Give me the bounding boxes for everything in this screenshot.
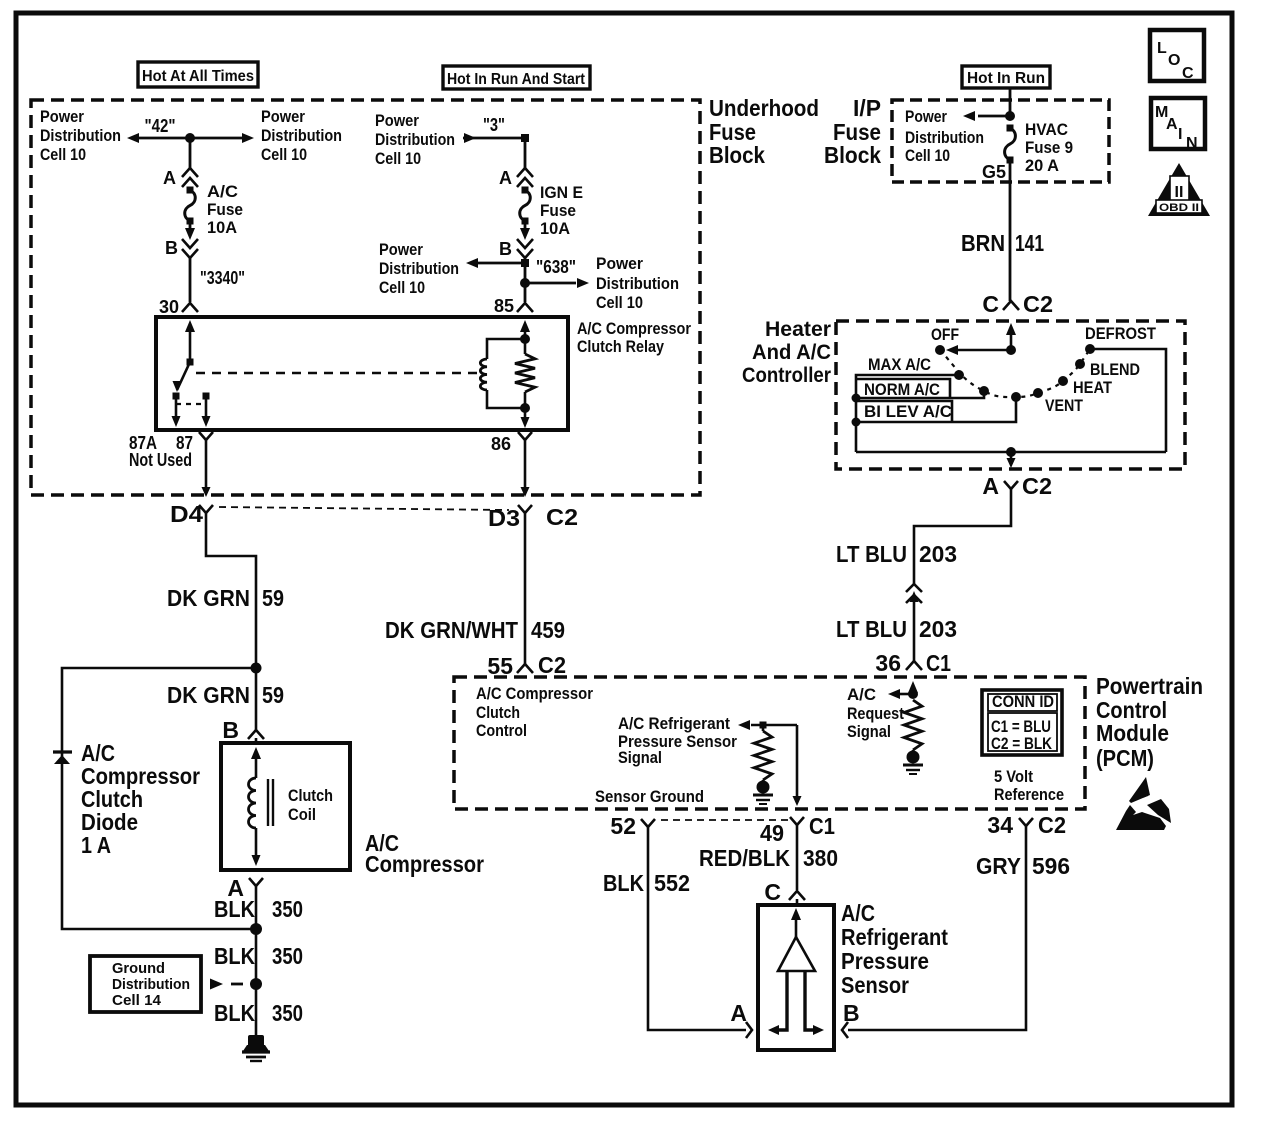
- svg-text:350: 350: [272, 896, 303, 922]
- connector pin B: [182, 239, 198, 248]
- junction diode branch: [251, 663, 262, 674]
- svg-text:LT BLU: LT BLU: [836, 616, 907, 642]
- svg-text:85: 85: [494, 296, 514, 316]
- svg-text:55: 55: [487, 653, 513, 679]
- svg-text:MAX A/C: MAX A/C: [868, 355, 931, 374]
- svg-text:C: C: [764, 879, 781, 905]
- svg-text:Compressor: Compressor: [365, 851, 484, 877]
- svg-text:C2: C2: [1022, 473, 1052, 499]
- svg-text:Cell 10: Cell 10: [261, 145, 307, 164]
- svg-text:34: 34: [987, 812, 1013, 838]
- connector pin B: [517, 239, 533, 248]
- BI LEV A/C label box and wire: [856, 401, 952, 422]
- svg-text:A: A: [982, 473, 999, 499]
- wire 87 to D4: [205, 452, 208, 489]
- wire Hot In Run to fuse block: [1009, 88, 1012, 116]
- svg-text:A: A: [1166, 116, 1178, 133]
- wire 86 to D3: [524, 452, 527, 489]
- svg-text:A/C: A/C: [841, 900, 875, 926]
- svg-text:20 A: 20 A: [1025, 156, 1059, 175]
- wire GRY 596: [848, 840, 1026, 1030]
- svg-text:N: N: [1186, 135, 1198, 152]
- relay switch common from pin 30: [185, 320, 195, 332]
- svg-text:"42": "42": [145, 116, 176, 136]
- svg-text:A: A: [499, 168, 512, 188]
- svg-text:Ground: Ground: [112, 960, 165, 977]
- selector position HEAT: [1058, 376, 1068, 386]
- svg-text:BLK: BLK: [603, 870, 644, 896]
- DEFROST wire right rail: [1090, 349, 1166, 452]
- off-page arrow left (Power Distribution Cell 10): [127, 133, 139, 143]
- LOC icon: [1150, 30, 1204, 81]
- svg-text:350: 350: [272, 943, 303, 969]
- NORM A/C label box and wire: [856, 379, 950, 398]
- clutch coil L1: [251, 747, 261, 759]
- svg-text:A/C Compressor: A/C Compressor: [577, 319, 691, 338]
- entry arrow: [1006, 323, 1016, 335]
- relay actuation dashed link: [196, 372, 479, 374]
- svg-text:C2: C2: [1023, 291, 1053, 317]
- svg-text:A: A: [730, 1000, 747, 1026]
- svg-text:C2 = BLK: C2 = BLK: [991, 734, 1053, 753]
- svg-text:B: B: [165, 238, 178, 258]
- svg-text:Heater: Heater: [765, 318, 831, 341]
- svg-text:49: 49: [760, 820, 784, 846]
- junction ground distribution: [250, 978, 262, 990]
- svg-text:And A/C: And A/C: [752, 341, 831, 364]
- svg-text:DK GRN/WHT: DK GRN/WHT: [385, 617, 518, 643]
- svg-text:Pressure: Pressure: [841, 948, 929, 974]
- request resistor R2: [904, 700, 922, 750]
- svg-text:BLK: BLK: [214, 1000, 255, 1026]
- svg-text:I: I: [1178, 126, 1182, 143]
- svg-text:Power: Power: [261, 107, 305, 126]
- svg-text:B: B: [499, 239, 512, 259]
- svg-text:A: A: [163, 168, 176, 188]
- connector line dashed 52-49: [661, 819, 789, 821]
- svg-text:203: 203: [919, 616, 957, 642]
- svg-text:141: 141: [1015, 230, 1044, 256]
- svg-text:BLEND: BLEND: [1090, 360, 1140, 379]
- A/C compressor box: [221, 743, 350, 870]
- svg-text:C2: C2: [1038, 812, 1066, 838]
- wire 87A down: [175, 399, 178, 418]
- fuse F1 A/C Fuse 10A element: [187, 187, 194, 194]
- wire G5 out of fuse block: [1009, 160, 1012, 182]
- selector arc dashed: [940, 349, 1090, 397]
- svg-text:Clutch Relay: Clutch Relay: [577, 337, 664, 356]
- svg-text:Signal: Signal: [847, 722, 891, 741]
- svg-text:Hot At All Times: Hot At All Times: [142, 68, 254, 85]
- junction 42: [185, 133, 195, 143]
- svg-text:Power: Power: [596, 254, 643, 273]
- svg-text:Sensor: Sensor: [841, 972, 909, 998]
- feed arrow from Power Distribution: [464, 133, 476, 143]
- svg-text:Cell 10: Cell 10: [596, 293, 643, 312]
- PCM boundary: [454, 677, 1085, 809]
- svg-text:Distribution: Distribution: [596, 274, 679, 293]
- contact link dashed: [176, 403, 206, 405]
- selector position BI LEV A/C: [1011, 392, 1021, 402]
- svg-text:Coil: Coil: [288, 805, 316, 824]
- connector line C2 dashed: [219, 507, 509, 510]
- svg-text:A/C: A/C: [207, 182, 238, 201]
- svg-text:52: 52: [610, 813, 636, 839]
- svg-text:Distribution: Distribution: [375, 130, 455, 149]
- relay switch blade: [187, 359, 194, 366]
- svg-text:Cell 10: Cell 10: [379, 278, 425, 297]
- connector pin A (A/C fuse): [182, 168, 198, 177]
- wire "3340": [189, 258, 192, 302]
- svg-text:203: 203: [919, 541, 957, 567]
- wire 87 down: [205, 399, 208, 418]
- label box "Hot In Run": [962, 66, 1050, 88]
- svg-text:86: 86: [491, 434, 511, 454]
- svg-text:Powertrain: Powertrain: [1096, 673, 1203, 699]
- svg-text:(PCM): (PCM): [1096, 745, 1154, 771]
- node 638 branch right: [520, 278, 530, 288]
- svg-text:OFF: OFF: [931, 325, 959, 344]
- relay coil branch top: [520, 320, 530, 332]
- svg-text:RED/BLK: RED/BLK: [699, 845, 790, 871]
- wire DK GRN/WHT 459: [524, 528, 527, 664]
- svg-text:DK GRN: DK GRN: [167, 682, 250, 708]
- svg-text:O: O: [1168, 52, 1180, 69]
- svg-text:380: 380: [803, 845, 838, 871]
- svg-text:Underhood: Underhood: [709, 95, 819, 121]
- svg-text:Block: Block: [709, 142, 765, 168]
- svg-text:Module: Module: [1096, 720, 1169, 746]
- fuse output arrow down: [524, 221, 527, 233]
- svg-text:Power: Power: [379, 240, 423, 259]
- svg-text:Fuse 9: Fuse 9: [1025, 138, 1073, 157]
- selector position MAX A/C: [954, 370, 964, 380]
- svg-text:B: B: [222, 717, 239, 743]
- relay coil to pin 86: [524, 408, 527, 419]
- svg-text:Not Used: Not Used: [129, 450, 192, 470]
- svg-text:D4: D4: [170, 501, 203, 527]
- selector position DEFROST: [1085, 344, 1095, 354]
- svg-text:59: 59: [262, 682, 284, 708]
- svg-text:Refrigerant: Refrigerant: [841, 924, 948, 950]
- svg-text:Distribution: Distribution: [40, 126, 121, 145]
- label box "Hot At All Times": [138, 62, 258, 87]
- svg-text:A/C Compressor: A/C Compressor: [476, 684, 593, 703]
- svg-text:BI LEV A/C: BI LEV A/C: [864, 402, 952, 421]
- controller bottom wire: [856, 451, 1166, 454]
- svg-text:HEAT: HEAT: [1073, 378, 1113, 397]
- svg-text:Signal: Signal: [618, 748, 662, 767]
- svg-text:459: 459: [531, 617, 565, 643]
- relay coil (inductor): [487, 339, 525, 359]
- wire down to fuse A: [524, 138, 527, 169]
- off-page arrow right (Power Distribution Cell 10): [242, 133, 254, 143]
- svg-text:Clutch: Clutch: [476, 703, 520, 722]
- selector position VENT: [1033, 388, 1043, 398]
- svg-text:10A: 10A: [207, 218, 237, 237]
- internal ground: [757, 781, 770, 794]
- relay K1 A/C Compressor Clutch Relay box: [156, 317, 568, 430]
- svg-text:Request: Request: [847, 704, 904, 723]
- svg-text:552: 552: [654, 870, 690, 896]
- ground G100: [248, 1035, 264, 1047]
- wire DK GRN 59: [206, 528, 256, 668]
- svg-text:D3: D3: [488, 505, 520, 531]
- svg-text:Fuse: Fuse: [207, 200, 243, 219]
- sensor signal arrow: [738, 720, 750, 730]
- selector position BLEND: [1075, 359, 1085, 369]
- sensor internal symbol: [791, 908, 801, 920]
- in-line connector: [906, 584, 922, 592]
- wire to compressor pin B: [255, 668, 258, 730]
- wire down to fuse A: [189, 138, 192, 169]
- MAX A/C wire: [856, 375, 959, 452]
- junction 3: [521, 134, 529, 142]
- diode branch wiring: [62, 668, 256, 929]
- svg-text:Hot In Run: Hot In Run: [967, 70, 1045, 87]
- arrow to OFF position: [952, 349, 1011, 352]
- svg-text:B: B: [843, 1000, 860, 1026]
- A/C request signal arrow: [908, 681, 918, 693]
- svg-text:Distribution: Distribution: [112, 976, 190, 993]
- svg-text:LT BLU: LT BLU: [836, 541, 907, 567]
- selector position OFF: [935, 345, 945, 355]
- svg-text:HVAC: HVAC: [1025, 120, 1068, 139]
- A/C refrigerant pressure sensor box: [758, 905, 834, 1050]
- fuse output arrow down: [189, 221, 192, 233]
- wire to relay pin 85: [524, 258, 527, 302]
- selector position NORM A/C: [979, 386, 989, 396]
- svg-text:C: C: [982, 291, 999, 317]
- svg-text:IGN E: IGN E: [540, 183, 583, 202]
- svg-text:C2: C2: [538, 652, 566, 678]
- svg-text:350: 350: [272, 1000, 303, 1026]
- svg-text:BLK: BLK: [214, 896, 255, 922]
- svg-text:CONN ID: CONN ID: [992, 692, 1054, 711]
- OBD II icon: [1148, 163, 1210, 216]
- junction diode return: [250, 923, 262, 935]
- svg-text:Block: Block: [824, 142, 881, 168]
- svg-text:Distribution: Distribution: [379, 259, 459, 278]
- pull-up resistor R1: [754, 731, 772, 780]
- svg-text:Fuse: Fuse: [540, 201, 576, 220]
- ESD sensitive icon: [1129, 777, 1150, 803]
- svg-text:Cell 10: Cell 10: [375, 149, 421, 168]
- svg-text:Sensor Ground: Sensor Ground: [595, 787, 704, 806]
- svg-text:Control: Control: [476, 721, 527, 740]
- svg-text:II: II: [1175, 184, 1184, 201]
- junction: [1005, 111, 1015, 121]
- svg-text:L: L: [1157, 40, 1167, 57]
- fuse F2 IGN E Fuse 10A element: [522, 187, 529, 194]
- wire LT BLU 203: [914, 500, 1011, 584]
- svg-text:Clutch: Clutch: [288, 786, 333, 805]
- svg-text:Hot In Run And Start: Hot In Run And Start: [447, 71, 586, 88]
- svg-text:BRN: BRN: [961, 230, 1005, 256]
- svg-text:5 Volt: 5 Volt: [994, 767, 1033, 786]
- svg-text:NORM A/C: NORM A/C: [864, 380, 940, 399]
- svg-text:C: C: [1182, 65, 1194, 82]
- label box "Hot In Run And Start": [443, 66, 590, 89]
- heater and A/C controller boundary: [836, 321, 1185, 469]
- svg-text:C2: C2: [546, 504, 578, 530]
- svg-text:Power: Power: [375, 111, 419, 130]
- svg-text:"638": "638": [536, 257, 576, 277]
- CONN ID table: [982, 690, 1062, 755]
- fuse F3 HVAC Fuse 9 20A element: [1007, 125, 1014, 132]
- svg-text:BLK: BLK: [214, 943, 255, 969]
- ground distribution cell box: [90, 956, 201, 1012]
- svg-text:Controller: Controller: [742, 364, 831, 387]
- underhood fuse block boundary: [31, 100, 700, 495]
- relay coil resistor: [524, 339, 527, 354]
- relay contact 87A: [173, 393, 180, 400]
- svg-text:"3340": "3340": [200, 268, 245, 288]
- svg-text:59: 59: [262, 585, 284, 611]
- svg-text:Distribution: Distribution: [261, 126, 342, 145]
- svg-text:Power: Power: [40, 107, 84, 126]
- svg-text:Distribution: Distribution: [905, 128, 984, 147]
- svg-text:Cell 10: Cell 10: [905, 146, 950, 165]
- svg-text:G5: G5: [982, 162, 1006, 182]
- svg-text:1 A: 1 A: [81, 832, 111, 858]
- I/P fuse block boundary: [892, 100, 1109, 182]
- exit arrow down: [1010, 452, 1013, 461]
- request ground: [907, 751, 920, 764]
- relay contact 87: [203, 393, 210, 400]
- svg-text:10A: 10A: [540, 219, 570, 238]
- wire BLK 552: [648, 840, 746, 1030]
- arrow ground distribution: [210, 979, 223, 990]
- svg-text:Cell 10: Cell 10: [40, 145, 86, 164]
- wire RED/BLK 380: [796, 840, 799, 890]
- signal wire to pin 49: [796, 725, 799, 797]
- svg-text:596: 596: [1032, 853, 1070, 879]
- wire 42 horizontal: [138, 137, 244, 140]
- svg-text:A/C: A/C: [847, 685, 876, 704]
- svg-text:C1: C1: [809, 813, 835, 839]
- connector pin A (IGN E fuse): [517, 168, 533, 177]
- svg-text:36: 36: [875, 650, 901, 676]
- svg-text:A/C Refrigerant: A/C Refrigerant: [618, 714, 730, 733]
- svg-text:"3": "3": [483, 115, 505, 135]
- diode D1 A/C compressor clutch diode: [53, 750, 72, 753]
- wire BLK 350: [255, 898, 258, 1036]
- svg-text:DK GRN: DK GRN: [167, 585, 250, 611]
- wire BRN 141: [1009, 182, 1012, 301]
- svg-text:OBD II: OBD II: [1159, 202, 1199, 214]
- svg-text:VENT: VENT: [1045, 396, 1084, 415]
- svg-text:30: 30: [159, 297, 179, 317]
- svg-text:GRY: GRY: [976, 853, 1021, 879]
- MAIN icon: [1151, 98, 1205, 149]
- svg-text:I/P: I/P: [853, 95, 881, 121]
- svg-text:C1: C1: [926, 650, 951, 676]
- svg-text:Reference: Reference: [994, 785, 1064, 804]
- svg-text:DEFROST: DEFROST: [1085, 324, 1157, 343]
- svg-text:Power: Power: [905, 107, 947, 126]
- feed arrow to Power Distribution Cell 10: [978, 115, 1010, 118]
- svg-text:Cell 14: Cell 14: [112, 992, 162, 1009]
